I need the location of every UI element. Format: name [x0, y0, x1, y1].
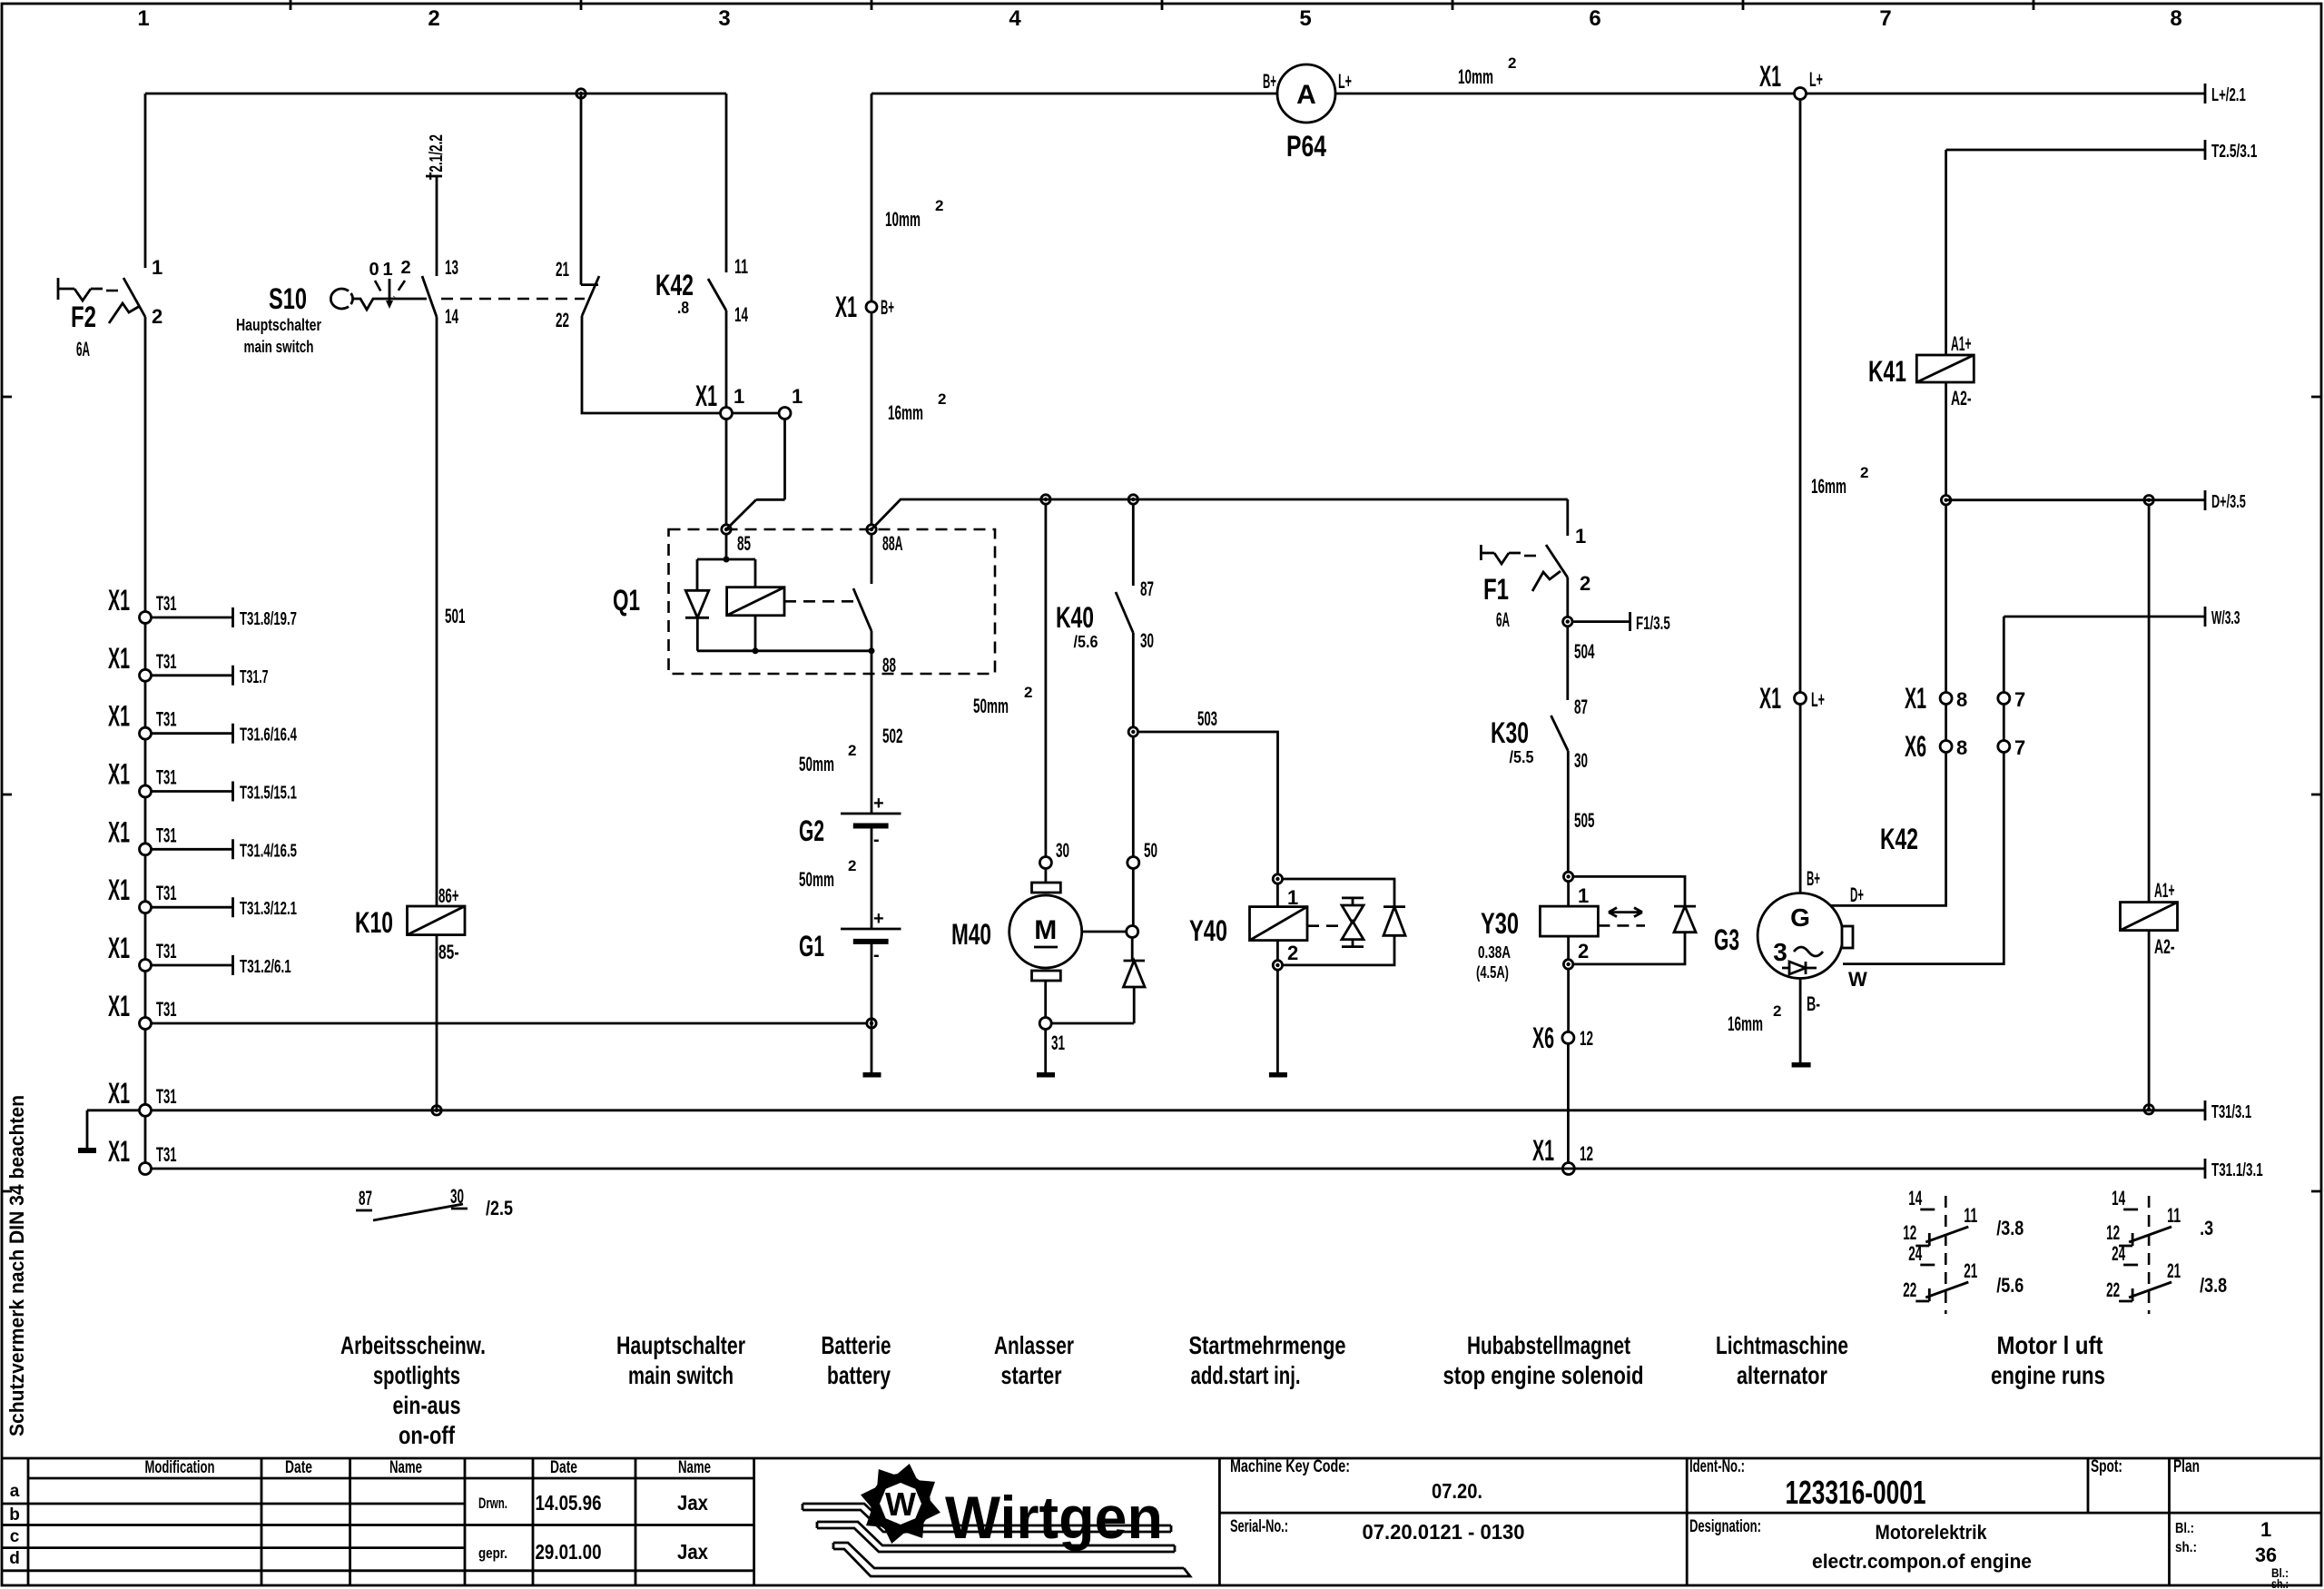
coil Q1 — [727, 587, 784, 616]
relay module Q1 dashed box — [669, 529, 996, 674]
svg-text:50mm: 50mm — [799, 868, 834, 891]
wire Q1 coil top — [697, 534, 755, 590]
svg-text:0.38A: 0.38A — [1478, 943, 1511, 962]
svg-text:Ident-No.:: Ident-No.: — [1689, 1457, 1745, 1476]
logo gear — [858, 1461, 942, 1545]
svg-text:L+: L+ — [1809, 68, 1823, 91]
wire T31/3.1 bus — [152, 1100, 2206, 1120]
alternator G3 — [1758, 893, 1843, 979]
svg-text:X1: X1 — [1905, 682, 1926, 715]
junction battery T31 row — [867, 1019, 876, 1028]
svg-text:22: 22 — [2106, 1278, 2120, 1301]
svg-text:0: 0 — [369, 260, 379, 280]
svg-text:1: 1 — [382, 260, 392, 280]
svg-text:503: 503 — [1197, 707, 1217, 730]
svg-text:/2.5: /2.5 — [486, 1197, 513, 1219]
svg-text:X1: X1 — [108, 584, 130, 617]
svg-text:sh.:: sh.: — [2271, 1576, 2289, 1589]
svg-text:P64: P64 — [1286, 130, 1326, 163]
wire Y30 down — [1567, 969, 1570, 1031]
svg-text:M40: M40 — [951, 918, 991, 951]
svg-text:Bl.:: Bl.: — [2175, 1521, 2194, 1536]
border column ticks — [290, 0, 2033, 10]
ground battery — [863, 1072, 881, 1078]
svg-text:T31.5/15.1: T31.5/15.1 — [240, 784, 297, 804]
svg-text:12: 12 — [1580, 1027, 1593, 1050]
junction 503 — [1128, 727, 1137, 736]
starter motor M40 — [1032, 883, 1061, 893]
svg-text:W: W — [1848, 968, 1867, 991]
svg-text:T31.3/12.1: T31.3/12.1 — [240, 899, 297, 919]
ground stub left — [87, 1110, 140, 1148]
svg-text:K10: K10 — [355, 906, 393, 939]
svg-text:X1: X1 — [108, 932, 130, 964]
svg-text:1: 1 — [792, 385, 803, 408]
wire G3 B+ up — [1799, 705, 1802, 893]
svg-text:on-off: on-off — [399, 1421, 456, 1449]
svg-text:Name: Name — [678, 1458, 711, 1477]
svg-text:Y40: Y40 — [1189, 914, 1227, 947]
svg-text:13: 13 — [445, 256, 458, 279]
terminal X1 T31 row T31.8/19.7 — [108, 584, 297, 629]
terminal X1 T31 bus2 — [140, 1163, 152, 1175]
wire down to K41 — [1945, 150, 1947, 355]
svg-text:X1: X1 — [108, 700, 130, 733]
svg-text:2: 2 — [1578, 940, 1589, 962]
svg-text:T31: T31 — [156, 650, 177, 673]
svg-text:W: W — [885, 1485, 916, 1523]
svg-text:ein-aus: ein-aus — [393, 1391, 461, 1419]
svg-text:T31.1/3.1: T31.1/3.1 — [2211, 1160, 2263, 1180]
svg-text:X1: X1 — [1532, 1134, 1554, 1167]
solenoid Y40 — [1273, 874, 1282, 883]
wire X6 7 down to G3 W — [1843, 753, 2004, 964]
wire W column down — [2003, 617, 2005, 693]
svg-text:T31.2/6.1: T31.2/6.1 — [240, 957, 291, 977]
svg-text:Modification: Modification — [145, 1458, 215, 1477]
svg-text:Serial-No.:: Serial-No.: — [1230, 1517, 1288, 1536]
svg-text:F1/3.5: F1/3.5 — [1636, 614, 1670, 634]
svg-text:2: 2 — [1287, 942, 1298, 964]
svg-text:A1+: A1+ — [2154, 879, 2175, 902]
border row ticks — [2, 397, 2321, 1191]
crossref table K41 — [1903, 1187, 2024, 1314]
svg-text:7: 7 — [1879, 6, 1891, 31]
wire F2 down left terminal column — [144, 317, 147, 1169]
wire G3 B- down — [1799, 979, 1802, 1063]
svg-text:T2.1/2.2: T2.1/2.2 — [427, 134, 447, 180]
wire between X1 circles — [733, 412, 780, 415]
svg-text:engine runs: engine runs — [1991, 1361, 2105, 1389]
svg-text:K42: K42 — [1880, 823, 1918, 855]
junction D+ K41 column — [1941, 496, 1950, 505]
solenoid Y30 — [1563, 872, 1572, 881]
svg-text:22: 22 — [1903, 1278, 1916, 1301]
svg-text:T31: T31 — [156, 1085, 177, 1108]
svg-text:starter: starter — [1001, 1361, 1062, 1389]
svg-text:505: 505 — [1574, 809, 1595, 832]
svg-text:Startmehrmenge: Startmehrmenge — [1189, 1331, 1346, 1359]
svg-text:8: 8 — [2170, 6, 2181, 31]
svg-text:2: 2 — [848, 742, 856, 759]
svg-text:S10: S10 — [269, 282, 307, 315]
terminal X1 T31 row T31.4/16.5 — [108, 815, 297, 861]
svg-text:A2-: A2- — [2154, 935, 2175, 958]
svg-text:85-: 85- — [438, 941, 459, 963]
junction K10 on bus — [432, 1106, 441, 1115]
svg-text:G1: G1 — [799, 930, 824, 962]
ground Y40 — [1269, 1072, 1287, 1078]
svg-text:24: 24 — [1908, 1242, 1922, 1265]
svg-text:8: 8 — [1956, 736, 1967, 759]
svg-text:Designation:: Designation: — [1689, 1517, 1761, 1536]
svg-text:F1: F1 — [1483, 573, 1509, 606]
svg-text:L+: L+ — [1338, 70, 1352, 93]
fuse-breaker F2 — [58, 278, 103, 301]
svg-text:Spot:: Spot: — [2091, 1457, 2122, 1476]
terminal X1 T31 row T31.3/12.1 — [108, 873, 297, 919]
svg-text:G3: G3 — [1714, 923, 1739, 956]
svg-text:B-: B- — [1807, 992, 1820, 1015]
svg-text:W/3.3: W/3.3 — [2211, 608, 2240, 628]
svg-text:T31: T31 — [156, 882, 177, 904]
svg-text:36: 36 — [2255, 1544, 2277, 1566]
svg-text:spotlights: spotlights — [373, 1361, 460, 1389]
svg-text:gepr.: gepr. — [478, 1545, 507, 1562]
svg-text:Machine Key Code:: Machine Key Code: — [1230, 1457, 1350, 1476]
svg-text:2: 2 — [152, 305, 162, 328]
svg-text:87: 87 — [1574, 696, 1588, 718]
terminal X6 12 — [1562, 1031, 1574, 1043]
svg-text:L+/2.1: L+/2.1 — [2211, 85, 2246, 105]
svg-text:L+: L+ — [1811, 688, 1825, 711]
svg-text:K42: K42 — [655, 269, 694, 301]
svg-text:1: 1 — [1575, 525, 1586, 548]
terminal X1 T31 row T31.5/15.1 — [108, 758, 297, 804]
svg-text:87: 87 — [1140, 577, 1154, 600]
svg-text:X1: X1 — [108, 1135, 130, 1168]
wire contact 21 column — [580, 94, 583, 285]
svg-text:2: 2 — [400, 258, 410, 278]
wire down to 503 junction — [1132, 633, 1135, 726]
svg-text:Hauptschalter: Hauptschalter — [616, 1331, 745, 1359]
wire G1 down to junction — [871, 942, 873, 1072]
terminal X1 12 — [1562, 1163, 1574, 1175]
svg-text:16mm: 16mm — [1728, 1012, 1763, 1035]
wire 14 down to X1 circle — [725, 311, 728, 408]
svg-text:/3.8: /3.8 — [1996, 1217, 2024, 1239]
svg-text:A: A — [1296, 80, 1316, 110]
svg-text:T31: T31 — [156, 592, 177, 615]
svg-text:21: 21 — [2167, 1259, 2181, 1282]
junction F1/3.5 — [1563, 617, 1572, 626]
svg-text:2: 2 — [938, 390, 946, 408]
svg-text:Jax: Jax — [677, 1491, 708, 1515]
wire 504 — [1566, 627, 1569, 700]
wire 503 to Y40 — [1137, 732, 1277, 873]
svg-text:X1: X1 — [1759, 60, 1781, 93]
terminal X6 8 — [1940, 741, 1952, 753]
svg-text:12: 12 — [1903, 1221, 1916, 1244]
relay coil K42 — [2121, 903, 2178, 931]
svg-text:Motor l uft: Motor l uft — [1997, 1331, 2103, 1359]
wire X1 L+ up to top bus — [1799, 100, 1802, 693]
terminal X1 T31 row T31.7 — [108, 642, 269, 687]
svg-text:Drwn.: Drwn. — [478, 1495, 507, 1512]
wire K42 A2- down to T31 bus — [2148, 931, 2151, 1110]
svg-text:1: 1 — [1578, 884, 1589, 907]
svg-text:Y30: Y30 — [1481, 907, 1519, 940]
svg-text:22: 22 — [556, 309, 569, 331]
terminal X1 T31 bus1 — [140, 1104, 152, 1116]
wire top-left bus — [145, 93, 726, 95]
svg-text:11: 11 — [2167, 1204, 2181, 1227]
svg-text:T2.5/3.1: T2.5/3.1 — [2211, 142, 2257, 162]
svg-text:T31/3.1: T31/3.1 — [2211, 1102, 2251, 1122]
wire G2 to G1 — [871, 826, 873, 930]
svg-text:88A: 88A — [882, 532, 903, 555]
junction top bus — [576, 89, 586, 98]
svg-text:50mm: 50mm — [799, 753, 834, 775]
junction bus 50 column — [1128, 495, 1137, 504]
svg-text:123316-0001: 123316-0001 — [1786, 1474, 1926, 1511]
svg-text:d: d — [9, 1549, 20, 1568]
svg-text:Name: Name — [389, 1458, 422, 1477]
wire Y40 down to ground — [1276, 970, 1279, 1072]
svg-text:14.05.96: 14.05.96 — [536, 1491, 602, 1515]
svg-text:electr.compon.of engine: electr.compon.of engine — [1812, 1550, 2032, 1573]
svg-text:sh.:: sh.: — [2175, 1540, 2197, 1555]
svg-text:B+: B+ — [1807, 867, 1820, 890]
terminal X1 L+ mid — [1795, 693, 1807, 705]
svg-text:2: 2 — [428, 6, 439, 31]
wire T2.5/3.1 — [1946, 140, 2205, 160]
wire F1 to junction — [1566, 577, 1569, 617]
svg-text:30: 30 — [1574, 749, 1588, 772]
svg-text:D+: D+ — [1850, 883, 1864, 906]
contact K42 11/14 — [708, 279, 726, 311]
svg-text:16mm: 16mm — [888, 401, 923, 424]
svg-text:50mm: 50mm — [973, 695, 1009, 717]
terminal T2.1/2.2 — [426, 175, 442, 178]
svg-text:6A: 6A — [1496, 608, 1510, 631]
svg-text:6: 6 — [1589, 6, 1600, 31]
terminal X1 B+ — [871, 94, 873, 301]
svg-text:T31: T31 — [156, 1143, 177, 1166]
wire T2.1 down to contact 13 — [436, 176, 438, 276]
svg-text:K41: K41 — [1868, 355, 1906, 388]
relay coil K10 — [408, 906, 466, 935]
wire Y30 suppression loop — [1573, 876, 1685, 964]
svg-text:A2-: A2- — [1951, 387, 1972, 410]
fuse-breaker F1 — [1481, 545, 1521, 564]
svg-text:Hauptschalter: Hauptschalter — [236, 316, 321, 334]
svg-text:X6: X6 — [1532, 1021, 1554, 1054]
svg-text:X1: X1 — [108, 642, 130, 675]
svg-text:2: 2 — [1860, 464, 1868, 481]
terminal X1 T31 row T31.2/6.1 — [108, 932, 291, 977]
svg-text:Lichtmaschine: Lichtmaschine — [1716, 1331, 1848, 1359]
svg-text:(4.5A): (4.5A) — [1476, 963, 1509, 982]
svg-text:/5.5: /5.5 — [1510, 748, 1534, 766]
wire bus to edge L+/2.1 — [1807, 84, 2206, 104]
svg-text:Q1: Q1 — [613, 584, 640, 617]
svg-text:14: 14 — [1908, 1187, 1922, 1209]
wire M40 column — [1045, 504, 1048, 857]
svg-text:21: 21 — [556, 258, 569, 281]
svg-text:stop engine solenoid: stop engine solenoid — [1443, 1361, 1644, 1389]
terminal X1 L+ top — [1795, 88, 1807, 100]
svg-text:50: 50 — [1144, 839, 1157, 862]
logo swoosh band 2 — [817, 1522, 1175, 1552]
svg-text:6A: 6A — [76, 338, 90, 360]
wire bus corner to F1 — [1566, 499, 1569, 536]
svg-text:T31: T31 — [156, 998, 177, 1021]
arrow Y30 — [1609, 908, 1642, 917]
battery G2 — [841, 813, 901, 815]
svg-text:30: 30 — [1140, 629, 1154, 652]
svg-text:Jax: Jax — [677, 1540, 708, 1564]
contact Q1 — [853, 534, 871, 651]
svg-text:X1: X1 — [108, 990, 130, 1022]
svg-text:c: c — [10, 1527, 20, 1546]
wire bus to X1 L+ — [1335, 93, 1795, 95]
relay coil K41 — [1916, 355, 1974, 382]
svg-text:7: 7 — [2014, 688, 2025, 711]
svg-text:Anlasser: Anlasser — [994, 1331, 1074, 1359]
diode Q1 — [685, 590, 709, 617]
wire W/3.3 — [2004, 607, 2205, 627]
svg-text:86+: 86+ — [438, 884, 459, 907]
svg-text:D+/3.5: D+/3.5 — [2211, 492, 2246, 512]
svg-text:B+: B+ — [881, 296, 894, 319]
svg-text:87: 87 — [359, 1187, 372, 1209]
wire X1-1 down to Q1 85 — [725, 419, 728, 526]
wire 22 down to X1 — [582, 316, 721, 413]
svg-text:Hubabstellmagnet: Hubabstellmagnet — [1467, 1331, 1630, 1359]
dashed link Y40 — [1307, 924, 1342, 927]
svg-text:2: 2 — [1024, 684, 1032, 701]
logo swoosh band 3 — [833, 1543, 1190, 1576]
svg-text:a: a — [10, 1482, 20, 1501]
svg-text:504: 504 — [1574, 640, 1595, 663]
svg-text:14: 14 — [734, 303, 748, 326]
svg-text:K30: K30 — [1491, 716, 1529, 749]
wire M40 right to 50 column — [1082, 931, 1127, 933]
svg-text:B+: B+ — [1263, 70, 1276, 93]
svg-text:T31.7: T31.7 — [240, 667, 269, 687]
ammeter P64 — [1277, 64, 1335, 123]
svg-text:2: 2 — [1773, 1002, 1781, 1020]
junction Q1 88A — [867, 525, 876, 534]
svg-text:2: 2 — [848, 857, 856, 874]
svg-text:b: b — [9, 1505, 20, 1525]
wire D+ bus — [1946, 490, 2205, 510]
wire K10 down to T31 bus — [436, 935, 438, 1110]
svg-text:30: 30 — [1056, 839, 1069, 862]
diode Y40 loop — [1384, 905, 1405, 908]
svg-text:2: 2 — [1580, 572, 1590, 595]
svg-text:10mm: 10mm — [1458, 65, 1493, 88]
svg-text:Arbeitsscheinw.: Arbeitsscheinw. — [340, 1331, 486, 1359]
svg-text:10mm: 10mm — [885, 208, 921, 231]
svg-text:T31: T31 — [156, 708, 177, 731]
wire 505 — [1567, 751, 1570, 872]
svg-text:Date: Date — [285, 1458, 312, 1477]
svg-text:14: 14 — [2112, 1187, 2125, 1209]
svg-text:.8: .8 — [677, 299, 689, 317]
terminal M40 drive — [1127, 926, 1138, 938]
svg-text:4: 4 — [1009, 6, 1021, 31]
wire to X6 8 — [1945, 705, 1947, 741]
wire Y40 suppression loop — [1282, 879, 1394, 965]
ground M40 — [1037, 1072, 1055, 1078]
svg-text:1: 1 — [137, 6, 149, 31]
svg-text:14: 14 — [445, 305, 458, 328]
svg-text:1: 1 — [734, 385, 744, 408]
logo swoosh band 1 — [803, 1504, 1171, 1532]
svg-text:X1: X1 — [108, 758, 130, 791]
svg-text:T31: T31 — [156, 766, 177, 789]
terminal X1 T31 row 8 bus to battery — [108, 990, 867, 1030]
svg-text:12: 12 — [2106, 1221, 2120, 1244]
svg-text:85: 85 — [737, 532, 751, 555]
junction bus M40 — [1041, 495, 1050, 504]
svg-text:501: 501 — [445, 605, 466, 627]
wire K41 A2- down — [1945, 382, 1947, 496]
svg-text:Date: Date — [550, 1458, 577, 1477]
svg-text:2: 2 — [935, 197, 943, 214]
svg-text:battery: battery — [827, 1361, 891, 1389]
terminal 50 — [1128, 857, 1139, 869]
svg-text:12: 12 — [1580, 1142, 1593, 1165]
svg-text:add.start inj.: add.start inj. — [1191, 1361, 1301, 1389]
svg-text:1: 1 — [2260, 1518, 2271, 1541]
wire K41 column to X1 8 — [1945, 505, 1947, 693]
svg-text:Motorelektrik: Motorelektrik — [1876, 1521, 1988, 1544]
svg-text:21: 21 — [1964, 1259, 1977, 1282]
wire top bus right segment — [871, 93, 1277, 95]
svg-text:T31: T31 — [156, 824, 177, 846]
svg-text:G: G — [1790, 903, 1810, 932]
svg-text:T31: T31 — [156, 940, 177, 962]
svg-text:88: 88 — [882, 654, 896, 676]
svg-text:11: 11 — [734, 255, 748, 278]
svg-text:8: 8 — [1956, 688, 1967, 711]
terminal X1 7 — [1998, 693, 2010, 705]
terminal 31 — [1039, 1018, 1051, 1030]
wire T31.1/3.1 bus — [152, 1159, 2206, 1179]
logo Wirtgen — [803, 1461, 1190, 1576]
battery G1 — [841, 928, 901, 931]
junction Q1 85 — [722, 525, 731, 534]
svg-text:1: 1 — [152, 256, 162, 279]
contact K42 21/22 — [581, 276, 599, 316]
terminal X1 1 — [721, 408, 733, 419]
svg-text:11: 11 — [1964, 1204, 1977, 1227]
contact S10 13/14 — [422, 276, 437, 317]
contact K40 87/30 — [1132, 504, 1135, 586]
terminal X1 8 — [1940, 693, 1952, 705]
svg-text:Batterie: Batterie — [822, 1331, 891, 1359]
wire K42 11 stub — [725, 94, 728, 272]
svg-text:16mm: 16mm — [1811, 475, 1846, 498]
wire X6 12 to X1 12 — [1567, 1043, 1570, 1162]
dashed link S10 to contact 21 — [441, 298, 585, 301]
crossref table K42 — [2106, 1187, 2227, 1314]
wire K42 coil column — [2148, 505, 2151, 903]
svg-text:Wirtgen: Wirtgen — [945, 1484, 1163, 1551]
